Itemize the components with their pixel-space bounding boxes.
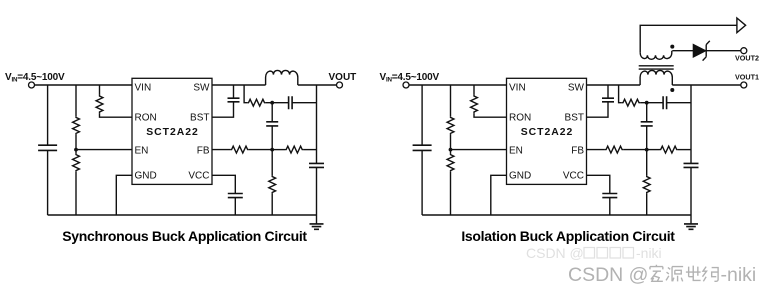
svg-text:VIN: VIN xyxy=(509,82,526,93)
node VOUT2 terminal xyxy=(741,48,747,54)
svg-text:CSDN @: CSDN @ xyxy=(526,245,584,261)
node injection junction xyxy=(270,101,274,105)
resistor R11 ripple injection xyxy=(619,85,664,106)
svg-text:VOUT: VOUT xyxy=(329,72,357,83)
capacitor C11 output cap xyxy=(684,85,699,215)
wire EN junction to EN pin xyxy=(451,149,507,151)
capacitor C5 output cap xyxy=(309,85,324,215)
svg-text:BST: BST xyxy=(565,113,584,124)
svg-text:Isolation Buck Application Cir: Isolation Buck Application Circuit xyxy=(461,228,675,244)
label watermark CSDN @hongyuan-niki xyxy=(568,264,756,286)
capacitor C1 input cap xyxy=(38,85,57,215)
resistor R9 divider lower xyxy=(447,153,454,215)
wire diode to VOUT2 xyxy=(706,50,741,52)
resistor R12 FB series xyxy=(587,146,647,153)
wire top input rail VIN xyxy=(409,84,507,86)
capacitor C6 VCC bypass xyxy=(212,175,243,215)
inductor L1 output inductor xyxy=(266,70,298,85)
node VOUT terminal xyxy=(337,82,343,88)
resistor R3 on-time set RON xyxy=(96,85,132,117)
node FB junction xyxy=(645,148,649,152)
node T1 primary polarity dot xyxy=(670,88,674,92)
diode D1 zener rectifier xyxy=(693,41,709,61)
node VIN input terminal xyxy=(29,82,35,88)
resistor R8 divider upper xyxy=(447,85,454,153)
capacitor C9 series AC cap xyxy=(663,96,691,109)
IC U1 SCT2A22 xyxy=(132,78,212,184)
svg-text:-niki: -niki xyxy=(636,245,662,261)
svg-text:EN: EN xyxy=(509,146,523,157)
node VOUT1 terminal xyxy=(741,82,747,88)
svg-text:RON: RON xyxy=(135,113,157,124)
svg-text:BST: BST xyxy=(190,113,209,124)
svg-text:SW: SW xyxy=(193,82,210,93)
node VIN input terminal xyxy=(403,82,409,88)
IC U2 SCT2A22 xyxy=(507,78,587,184)
capacitor C12 VCC bypass xyxy=(587,175,618,215)
resistor R14 FB to GND xyxy=(643,150,650,215)
ground xyxy=(684,215,698,229)
node injection junction xyxy=(645,101,649,105)
wire bottom ground rail xyxy=(48,214,317,216)
wire secondary return to arrow xyxy=(640,25,737,53)
svg-text:VIN: VIN xyxy=(135,82,152,93)
wire secondary to diode D1 xyxy=(672,50,693,52)
svg-text:SW: SW xyxy=(568,82,585,93)
resistor R7 FB to GND xyxy=(269,150,276,215)
svg-text:FB: FB xyxy=(571,146,584,157)
svg-text:RON: RON xyxy=(509,113,531,124)
node FB junction xyxy=(270,148,274,152)
transformer T1 primary winding xyxy=(640,70,672,85)
svg-text:SCT2A22: SCT2A22 xyxy=(521,127,574,138)
wire GND pin return xyxy=(116,175,132,215)
ground xyxy=(310,215,324,229)
svg-text:VCC: VCC xyxy=(188,171,209,182)
resistor R4 ripple injection xyxy=(244,85,289,106)
resistor R1 divider upper xyxy=(73,85,80,153)
svg-text:GND: GND xyxy=(135,171,157,182)
svg-text:EN: EN xyxy=(135,146,149,157)
node T1 secondary polarity dot xyxy=(670,45,674,49)
wire SW node xyxy=(212,84,266,86)
node EN junction xyxy=(449,148,453,152)
wire SW node xyxy=(587,84,641,86)
wire VOUT1 output xyxy=(672,84,741,86)
capacitor C4 injection to FB xyxy=(266,103,278,150)
capacitor C8 bootstrap xyxy=(587,85,615,117)
label watermark faint CSDN line xyxy=(526,245,662,261)
transformer T1 core xyxy=(639,66,674,69)
resistor R5 FB series xyxy=(212,146,272,153)
svg-text:GND: GND xyxy=(509,171,531,182)
node EN junction xyxy=(74,148,78,152)
resistor R6 FB to VOUT xyxy=(272,146,316,153)
wire bottom ground rail xyxy=(422,214,691,216)
wire VOUT output xyxy=(298,84,337,86)
svg-text:VCC: VCC xyxy=(563,171,584,182)
svg-text:FB: FB xyxy=(197,146,210,157)
capacitor C10 injection to FB xyxy=(641,103,653,150)
svg-text:-niki: -niki xyxy=(721,264,757,286)
svg-text:SCT2A22: SCT2A22 xyxy=(146,127,199,138)
svg-text:CSDN @: CSDN @ xyxy=(568,264,648,286)
capacitor C7 input cap xyxy=(413,85,432,215)
transformer T1 secondary winding xyxy=(640,51,672,60)
resistor R2 divider lower xyxy=(73,153,80,215)
resistor R13 FB to VOUT xyxy=(647,146,691,153)
capacitor C3 series AC cap xyxy=(289,96,317,109)
svg-text:VOUT1: VOUT1 xyxy=(735,72,759,81)
svg-text:Synchronous Buck Application C: Synchronous Buck Application Circuit xyxy=(62,228,307,244)
wire EN junction to EN pin xyxy=(76,149,132,151)
wire GND pin return xyxy=(491,175,507,215)
capacitor C2 bootstrap xyxy=(212,85,240,117)
resistor R10 on-time set RON xyxy=(471,85,507,117)
arrow secondary return pointer xyxy=(737,18,746,33)
svg-text:VOUT2: VOUT2 xyxy=(735,54,759,63)
wire top input rail VIN xyxy=(35,84,133,86)
